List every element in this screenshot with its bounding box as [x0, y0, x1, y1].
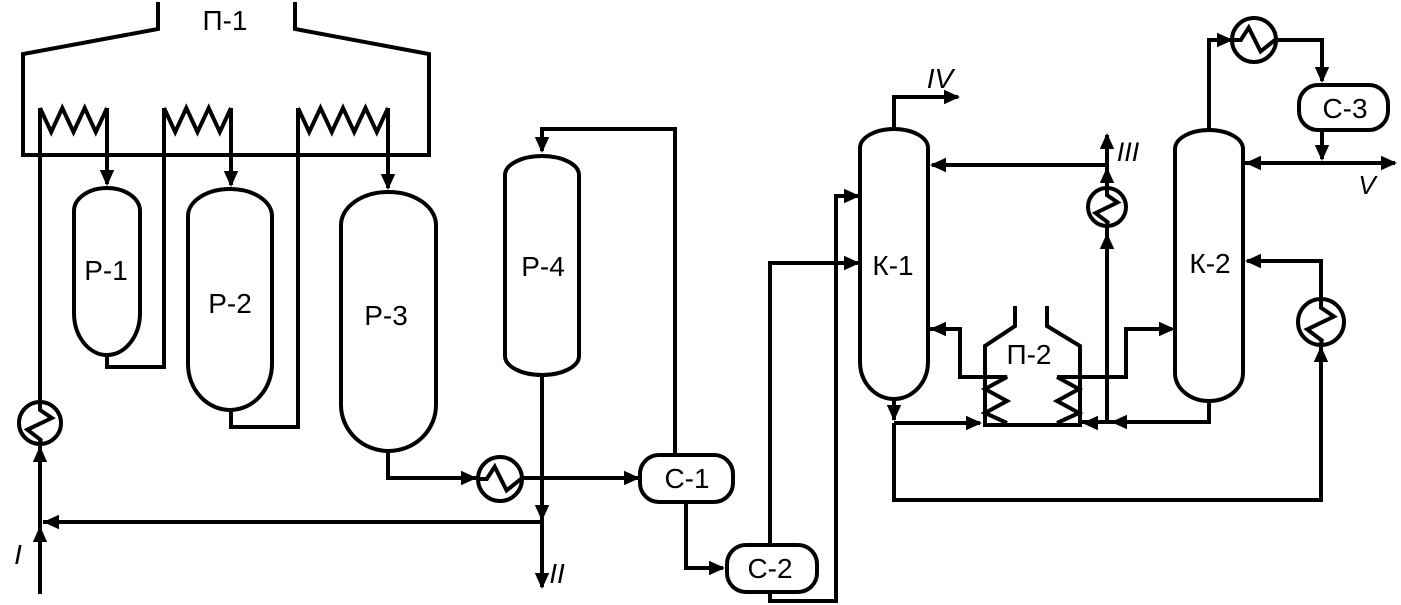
svg-text:Р-2: Р-2 [208, 288, 252, 319]
svg-text:С-3: С-3 [1322, 93, 1367, 124]
svg-text:П-1: П-1 [202, 5, 247, 36]
svg-text:III: III [1117, 137, 1140, 167]
svg-text:К-1: К-1 [872, 250, 913, 281]
svg-text:V: V [1358, 170, 1378, 200]
svg-text:С-2: С-2 [747, 553, 792, 584]
svg-text:Р-1: Р-1 [84, 255, 128, 286]
svg-text:К-2: К-2 [1189, 248, 1230, 279]
svg-text:П-2: П-2 [1006, 339, 1051, 370]
svg-text:Р-4: Р-4 [521, 251, 565, 282]
svg-text:IV: IV [927, 63, 956, 94]
svg-text:С-1: С-1 [664, 463, 709, 494]
svg-text:II: II [549, 558, 565, 589]
svg-text:I: I [14, 539, 22, 570]
svg-text:Р-3: Р-3 [364, 300, 408, 331]
